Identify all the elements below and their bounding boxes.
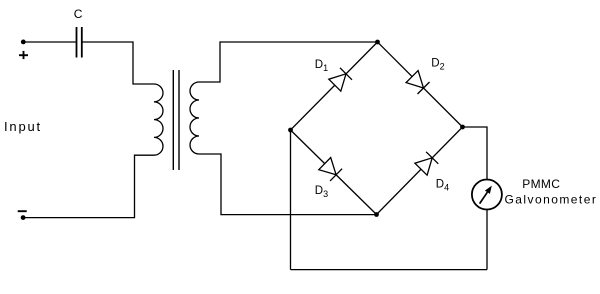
svg-text:C: C [74, 7, 83, 21]
diode D4 [415, 152, 438, 175]
node bottom [374, 212, 379, 217]
svg-text:Input: Input [4, 119, 42, 134]
diode D3 [319, 158, 342, 181]
wire: secondary top to bridge top node [199, 42, 378, 82]
node right [460, 125, 465, 130]
wire: left node down to bottom rail [290, 130, 292, 270]
diode D2 [406, 71, 429, 94]
galvanometer M1 [472, 180, 502, 210]
capacitor C [77, 27, 82, 58]
diode D1 [329, 68, 352, 91]
transformer core [173, 70, 179, 170]
svg-text:PMMC: PMMC [522, 177, 560, 191]
wire: bridge arm left node to top node [291, 42, 378, 130]
transformer T1 secondary winding [190, 82, 199, 154]
label - [18, 210, 27, 212]
wire: bottom rail [291, 269, 488, 271]
wire: secondary bottom to bridge bottom node [199, 154, 377, 215]
wire: primary bottom to - terminal [23, 155, 154, 217]
wire: bridge arm left node to bottom node [291, 130, 377, 215]
label + [19, 51, 28, 59]
wire: right node to galvanometer top [463, 127, 488, 180]
transformer T1 primary winding [154, 84, 163, 155]
input terminal - (node) [21, 215, 26, 220]
wire: capacitor to primary top corner [82, 42, 154, 84]
node left [288, 128, 293, 133]
node top [375, 40, 380, 45]
wire: bridge arm bottom node to right node [377, 127, 463, 215]
svg-text:Galvonometer: Galvonometer [505, 193, 598, 207]
wire: bottom rail up to galvanometer [486, 209, 488, 269]
input terminal + (node) [21, 40, 26, 45]
wire: + terminal to capacitor [23, 41, 76, 43]
wire: bridge arm top node to right node [378, 42, 463, 127]
